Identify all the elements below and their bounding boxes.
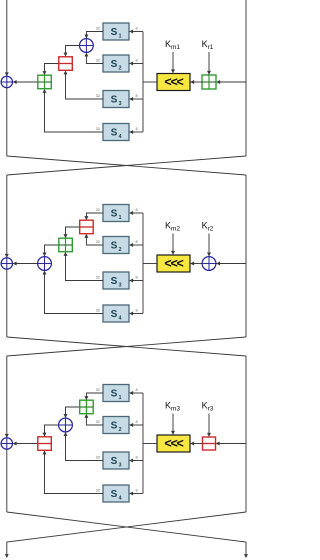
wire: S-box feed vertical round 1 [142, 32, 144, 133]
svg-text:2: 2 [118, 247, 121, 253]
wire: right half line round 1 [245, 0, 247, 156]
svg-text:1: 1 [118, 215, 121, 221]
svg-text:S: S [111, 209, 118, 220]
wire: left half output down round 3 [6, 449, 8, 512]
wire: S4 output into op3 round 2 [45, 271, 104, 313]
rotate box <<< (Km2) round 2 [157, 255, 190, 272]
wire: feed into S3 round 2 [130, 280, 143, 282]
key modular subtract node (Kr3) round 3 [203, 437, 216, 450]
wire: feed into S3 round 1 [130, 98, 143, 100]
svg-text:32: 32 [96, 27, 100, 31]
svg-text:S: S [111, 489, 118, 500]
wire: crossover 1 right-to-left [7, 156, 246, 175]
S-box S1 round 1 [103, 23, 129, 40]
wire: right half branch into key op round 1 [217, 81, 246, 83]
svg-text:8: 8 [136, 27, 138, 31]
S-box S4 round 2 [103, 305, 129, 322]
op2 modular subtract (S3) round 1 [59, 57, 73, 71]
svg-text:8: 8 [136, 489, 138, 493]
wire: op3 output into left xor round 1 [13, 81, 38, 83]
svg-text:8: 8 [136, 59, 138, 63]
svg-text:32: 32 [96, 59, 100, 63]
svg-text:32: 32 [96, 127, 100, 131]
wire: crossover 1 left-to-right [7, 156, 246, 175]
svg-text:S: S [111, 389, 118, 400]
wire: key op to rotate box round 1 [191, 81, 202, 83]
wire: Kr1 arrow into key op [208, 52, 210, 74]
rotate box <<< (Km1) round 1 [157, 74, 190, 91]
svg-text:2: 2 [118, 66, 121, 72]
op1 modular subtract (S1,S2) round 2 [80, 220, 94, 234]
S-box S2 round 1 [103, 55, 129, 72]
wire: feed into S3 round 3 [130, 460, 143, 462]
S-box S2 round 3 [103, 417, 129, 434]
op3 modular add (S4) round 1 [38, 75, 52, 89]
wire: left half input line round 2 [6, 175, 8, 257]
wire: left half input line round 3 [6, 356, 8, 437]
wire: right half line round 2 [245, 175, 247, 337]
svg-text:32: 32 [96, 309, 100, 313]
wire: feed into S1 round 2 [130, 212, 143, 214]
S-box S1 round 2 [103, 205, 129, 222]
key xor node (Kr2) round 2 [202, 257, 216, 271]
wire: key op to rotate box round 2 [191, 263, 202, 265]
wire: S4 output into op3 round 3 [45, 451, 104, 494]
wire: S-box feed vertical round 3 [142, 393, 144, 494]
svg-text:32: 32 [96, 388, 100, 392]
svg-text:1: 1 [118, 34, 121, 40]
svg-text:8: 8 [136, 456, 138, 460]
wire: left half input line round 1 [6, 0, 8, 76]
svg-text:8: 8 [136, 388, 138, 392]
xor combine with left half (round 3 output) [1, 438, 12, 449]
wire: op1 output into op2 round 2 [66, 227, 80, 238]
wire: feed into S2 round 3 [130, 424, 143, 426]
wire: feed into S1 round 3 [130, 392, 143, 394]
svg-text:8: 8 [136, 240, 138, 244]
xor combine with left half (round 2 output) [1, 258, 12, 269]
svg-text:<<<: <<< [164, 256, 183, 270]
xor combine with left half (round 1 output) [1, 76, 12, 87]
wire: rotate box output to S-box feed line round 3 [143, 443, 157, 445]
wire: S2 output into op1 round 3 [86, 414, 103, 425]
rotate box <<< (Km3) round 3 [157, 435, 190, 452]
wire: S2 output into op1 round 1 [86, 53, 103, 63]
wire: Kr2 arrow into key op [208, 234, 210, 256]
wire: Kr3 arrow into key op [208, 414, 210, 437]
wire: feed into S2 round 1 [130, 63, 143, 65]
wire: S3 output into op2 round 2 [66, 252, 104, 280]
svg-text:S: S [111, 128, 118, 139]
svg-text:32: 32 [96, 420, 100, 424]
svg-text:32: 32 [96, 276, 100, 280]
wire: feed into S4 round 2 [130, 313, 143, 315]
wire: op1 output into op2 round 3 [66, 407, 80, 417]
wire: left half output down round 2 [6, 269, 8, 337]
svg-text:32: 32 [96, 240, 100, 244]
svg-text:32: 32 [96, 456, 100, 460]
svg-text:1: 1 [118, 395, 121, 401]
svg-text:3: 3 [118, 283, 121, 289]
wire: rotate box output to S-box feed line round 1 [143, 81, 157, 83]
svg-text:S: S [111, 241, 118, 252]
wire: feed into S1 round 1 [130, 31, 143, 33]
S-box S2 round 2 [103, 237, 129, 254]
wire: S3 output into op2 round 3 [66, 433, 104, 461]
op2 xor (S3) round 3 [59, 418, 73, 432]
wire: right half line round 3 [245, 356, 247, 512]
S-box S3 round 1 [103, 91, 129, 108]
wire: S1 output into op1 round 3 [86, 393, 103, 400]
wire: Km1 arrow into rotate box [172, 52, 174, 73]
op1 modular add (S1,S2) round 3 [80, 400, 94, 414]
svg-text:S: S [111, 27, 118, 38]
wire: op2 output into op3 round 1 [45, 64, 59, 75]
svg-text:8: 8 [136, 309, 138, 313]
S-box S3 round 2 [103, 272, 129, 289]
svg-text:32: 32 [96, 489, 100, 493]
wire: S3 output into op2 round 1 [66, 71, 104, 99]
wire: S1 output into op1 round 2 [86, 213, 103, 220]
wire: crossover 2 right-to-left [7, 337, 246, 356]
svg-text:32: 32 [96, 208, 100, 212]
svg-text:2: 2 [118, 427, 121, 433]
svg-text:S: S [111, 276, 118, 287]
svg-text:8: 8 [136, 276, 138, 280]
wire: op2 output into op3 round 3 [45, 425, 59, 436]
S-box S3 round 3 [103, 452, 129, 469]
wire: S4 output into op3 round 1 [45, 90, 104, 133]
svg-text:S: S [111, 95, 118, 106]
wire: S2 output into op1 round 2 [86, 234, 103, 245]
wire: feed into S4 round 3 [130, 493, 143, 495]
wire: op3 output into left xor round 2 [13, 263, 37, 265]
wire: right half branch into key op round 2 [217, 263, 246, 265]
key modular add node (Kr1) round 1 [202, 75, 216, 89]
wire: op3 output into left xor round 3 [13, 443, 38, 445]
wire: left half output down round 1 [6, 88, 8, 156]
svg-text:3: 3 [118, 463, 121, 469]
S-box S4 round 1 [103, 124, 129, 141]
wire: feed into S4 round 1 [130, 131, 143, 133]
op1 xor (S1,S2) round 1 [80, 39, 94, 53]
svg-text:8: 8 [136, 94, 138, 98]
svg-text:8: 8 [136, 127, 138, 131]
op3 modular subtract (S4) round 3 [38, 437, 52, 451]
svg-text:S: S [111, 309, 118, 320]
wire: op2 output into op3 round 2 [45, 245, 59, 256]
wire: Km3 arrow into rotate box [172, 414, 174, 435]
wire: S1 output into op1 round 1 [86, 32, 103, 38]
wire: rotate box output to S-box feed line round 2 [143, 263, 157, 265]
wire: crossover 3 left-to-right output arrow [7, 512, 246, 558]
svg-text:S: S [111, 456, 118, 467]
wire: feed into S2 round 2 [130, 244, 143, 246]
wire: key op to rotate box round 3 [191, 443, 203, 445]
svg-text:<<<: <<< [164, 436, 183, 450]
svg-text:32: 32 [96, 94, 100, 98]
svg-text:3: 3 [118, 101, 121, 107]
S-box S4 round 3 [103, 485, 129, 502]
wire: right half branch into key op round 3 [216, 443, 246, 445]
S-box S1 round 3 [103, 385, 129, 402]
svg-text:S: S [111, 421, 118, 432]
svg-text:S: S [111, 59, 118, 70]
wire: crossover 3 right-to-left output arrow [7, 512, 246, 558]
svg-text:8: 8 [136, 420, 138, 424]
svg-text:<<<: <<< [164, 75, 183, 89]
wire: crossover 2 left-to-right [7, 337, 246, 356]
wire: Km2 arrow into rotate box [172, 234, 174, 255]
wire: op1 output into op2 round 1 [66, 46, 80, 57]
op3 xor (S4) round 2 [38, 257, 52, 271]
wire: S-box feed vertical round 2 [142, 213, 144, 314]
op2 modular add (S3) round 2 [59, 238, 73, 252]
svg-text:8: 8 [136, 208, 138, 212]
